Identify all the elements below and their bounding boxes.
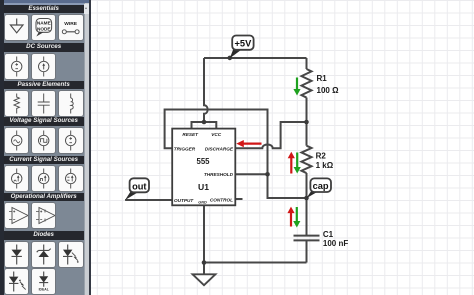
ground tool button <box>4 14 29 41</box>
capacitor button <box>31 90 56 117</box>
junction node VCC/RESET split <box>202 120 207 125</box>
svg-text:TRIGGER: TRIGGER <box>174 146 196 151</box>
current arrow red up at C1 <box>287 207 294 227</box>
wire threshold net down to cap node <box>268 174 307 198</box>
junction node R1/R2/discharge <box>304 120 309 125</box>
photodiode button <box>4 268 29 295</box>
wire C1 bottom lead <box>306 240 308 262</box>
junction node ground rail <box>202 260 207 265</box>
svg-text:100 Ω: 100 Ω <box>317 86 340 95</box>
wire trigger net: trigger pin to left riser <box>165 110 268 175</box>
flag +5V <box>230 36 254 59</box>
svg-text:GND: GND <box>198 201 207 205</box>
sine voltage source button <box>4 127 29 154</box>
wire R1 top lead to +5V rail <box>306 58 308 69</box>
svg-text:OUTPUT: OUTPUT <box>174 198 194 203</box>
svg-text:DISCHARGE: DISCHARGE <box>205 146 234 151</box>
flag cap <box>306 178 331 198</box>
svg-text:R2: R2 <box>316 152 327 161</box>
svg-text:THRESHOLD: THRESHOLD <box>204 172 234 177</box>
wire VCC/RESET T-bar <box>192 122 217 129</box>
name node tool button <box>31 14 56 41</box>
svg-text:cap: cap <box>313 181 329 191</box>
sine current source button <box>4 165 29 192</box>
current arrow green down at C1 <box>293 207 300 228</box>
op-amp/IC body: 555 timer U1 <box>172 129 235 206</box>
wire R1 bottom lead <box>306 98 308 123</box>
junction node cap <box>304 196 309 201</box>
wire R2 bottom lead to cap node <box>306 173 308 198</box>
wire bottom ground rail <box>204 262 307 264</box>
svg-text:VCC: VCC <box>211 132 222 137</box>
wire control pin stub <box>235 198 242 200</box>
wire discharge net with hop over trigger riser <box>235 122 306 148</box>
wire +5V net: left vertical with hop over trigger wire <box>204 58 208 122</box>
square current source button <box>31 165 56 192</box>
inductor button <box>58 90 83 117</box>
component palette <box>0 0 91 295</box>
wire threshold pin stub <box>235 173 267 175</box>
current source button <box>31 53 56 80</box>
svg-text:WIRE: WIRE <box>65 21 79 27</box>
svg-text:100 nF: 100 nF <box>323 239 348 248</box>
resistor R2 <box>302 146 312 173</box>
zener diode button <box>31 241 56 268</box>
current arrow red up at R2 <box>288 152 295 174</box>
svg-text:1 kΩ: 1 kΩ <box>316 161 334 170</box>
svg-text:C1: C1 <box>323 230 334 239</box>
svg-text:R1: R1 <box>317 74 328 83</box>
resistor R1 <box>302 69 312 98</box>
diode button <box>4 241 29 268</box>
wire cap node down to C1 <box>306 198 308 236</box>
svg-text:555: 555 <box>196 157 210 166</box>
ideal diode button <box>31 268 56 295</box>
svg-text:RESET: RESET <box>182 132 199 137</box>
junction node threshold <box>265 172 270 177</box>
current arrow green down at R1 <box>293 78 300 96</box>
resistor button <box>4 90 29 117</box>
voltage source button <box>4 53 29 80</box>
square voltage source button <box>31 127 56 154</box>
current arrow green down at R2 <box>294 153 301 174</box>
wire output pin lead <box>125 199 172 201</box>
svg-text:+5V: +5V <box>234 39 252 49</box>
svg-text:CONTROL: CONTROL <box>210 197 233 202</box>
op-amp button 1 <box>4 202 29 229</box>
svg-text:IDEAL: IDEAL <box>38 287 48 291</box>
wire GND pin down to ground rail <box>203 205 205 262</box>
capacitor C1 <box>294 236 320 241</box>
flag out <box>125 178 149 200</box>
label C1 value <box>323 230 348 248</box>
junction node at +5V tap <box>228 56 233 61</box>
pulse voltage source button <box>58 127 83 154</box>
current arrow red at discharge <box>236 140 261 147</box>
svg-text:U1: U1 <box>198 182 209 192</box>
svg-text:out: out <box>132 181 146 191</box>
ground symbol <box>193 274 216 285</box>
wire +5V net: top horizontal <box>204 57 307 59</box>
svg-text:NODE: NODE <box>37 26 51 31</box>
label R1 value <box>317 74 340 95</box>
led button <box>58 241 83 268</box>
op-amp button 2 <box>31 202 56 229</box>
wire R2 top lead <box>306 122 308 146</box>
wire ground stub <box>203 263 205 275</box>
svg-text:NAME: NAME <box>37 21 51 26</box>
label R2 value <box>316 152 334 171</box>
wire tool button <box>58 14 83 41</box>
pulse current source button <box>58 165 83 192</box>
